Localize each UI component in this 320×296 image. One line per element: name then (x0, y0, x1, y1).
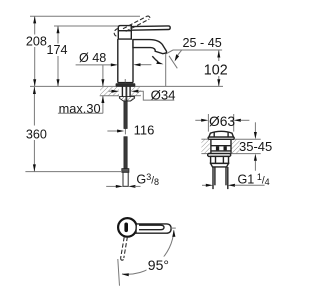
svg-text:102: 102 (204, 63, 228, 79)
svg-text:Ø63: Ø63 (209, 114, 235, 129)
svg-text:208: 208 (26, 34, 47, 48)
svg-text:Ø34: Ø34 (151, 87, 176, 102)
svg-text:Ø 48: Ø 48 (79, 51, 106, 65)
svg-text:174: 174 (47, 43, 68, 57)
svg-text:116: 116 (134, 123, 155, 138)
svg-text:35-45: 35-45 (239, 139, 272, 154)
svg-text:95°: 95° (148, 257, 169, 273)
svg-text:360: 360 (26, 127, 47, 141)
svg-text:25 - 45: 25 - 45 (183, 36, 222, 50)
